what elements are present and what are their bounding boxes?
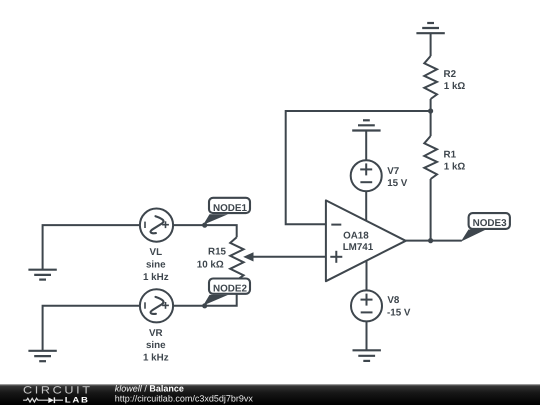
wire V7 to op-amp V+ xyxy=(365,191,367,221)
ground (below V8) xyxy=(353,350,381,361)
ground (above V7) xyxy=(352,120,380,130)
svg-text:V8: V8 xyxy=(387,295,400,306)
svg-text:1 kHz: 1 kHz xyxy=(143,272,169,283)
wire feedback: R1R2 node to op-amp - input xyxy=(286,111,431,224)
voltage source VL xyxy=(140,209,173,242)
svg-text:1 kΩ: 1 kΩ xyxy=(444,162,466,173)
wire VL right to R15 top xyxy=(173,225,237,237)
wire R15 wiper to op-amp + input xyxy=(250,256,326,258)
svg-text:NODE2: NODE2 xyxy=(213,284,248,295)
svg-text:R1: R1 xyxy=(444,150,457,161)
footer bar xyxy=(0,384,540,405)
node flag NODE1 xyxy=(203,198,250,225)
svg-text:10 kΩ: 10 kΩ xyxy=(197,259,224,270)
op-amp OA18 xyxy=(326,200,406,281)
junction dot NODE1 attach xyxy=(202,223,207,228)
CircuitLab logo xyxy=(23,385,93,405)
wire VR left to ground corner xyxy=(43,306,140,351)
svg-text:klowell / Balance: klowell / Balance xyxy=(115,384,184,394)
label R2 value xyxy=(444,69,466,92)
potentiometer R15 wiper arrow xyxy=(243,252,253,261)
label VR value xyxy=(143,328,169,364)
wire R1 to output node xyxy=(430,179,432,241)
wire op-amp output to NODE3 xyxy=(406,240,462,242)
wire V8 to ground xyxy=(366,321,368,350)
wire VL left to ground corner xyxy=(43,225,140,270)
wire VR right to R15 bottom xyxy=(173,280,237,306)
svg-text:NODE3: NODE3 xyxy=(473,218,508,229)
svg-text:LAB: LAB xyxy=(65,396,90,405)
node flag NODE2 xyxy=(203,279,250,306)
label VL value xyxy=(143,247,169,283)
wire op-amp V- to V8 xyxy=(366,261,368,291)
svg-text:VL: VL xyxy=(150,247,163,258)
svg-text:sine: sine xyxy=(146,340,166,351)
label V8 value xyxy=(387,295,411,318)
label R1 value xyxy=(444,150,466,173)
svg-text:1 kΩ: 1 kΩ xyxy=(444,81,466,92)
ground (below VL wire, left upper) xyxy=(28,270,56,280)
ground (top right, above R2) xyxy=(416,23,444,33)
op-amp - input mark xyxy=(331,224,341,226)
svg-text:R2: R2 xyxy=(444,69,457,80)
potentiometer R15 xyxy=(230,237,243,280)
voltage source V8 xyxy=(351,290,382,321)
label OA18 LM741 xyxy=(343,231,374,254)
voltage source VR xyxy=(140,289,173,322)
svg-text:-15 V: -15 V xyxy=(387,308,411,319)
junction dot output node xyxy=(428,238,433,243)
wire ground to R2 xyxy=(430,33,432,56)
svg-text:V7: V7 xyxy=(387,166,400,177)
svg-text:LM741: LM741 xyxy=(343,242,374,253)
junction dot feedback node xyxy=(428,108,433,113)
label R15 value xyxy=(197,247,227,271)
resistor R2 xyxy=(424,56,437,99)
footer title text xyxy=(115,384,254,404)
svg-text:VR: VR xyxy=(149,328,163,339)
op-amp + input mark xyxy=(330,251,342,263)
svg-text:http://circuitlab.com/c3xd5dj7: http://circuitlab.com/c3xd5dj7br9vx xyxy=(115,393,254,403)
wire R2 to R1 xyxy=(430,99,432,136)
ground (below VR wire, left lower) xyxy=(28,351,56,361)
svg-text:sine: sine xyxy=(146,259,166,270)
label V7 value xyxy=(387,166,408,189)
junction dot NODE2 attach xyxy=(202,303,207,308)
svg-text:1 kHz: 1 kHz xyxy=(143,353,169,364)
svg-text:NODE1: NODE1 xyxy=(213,203,248,214)
svg-text:OA18: OA18 xyxy=(343,231,369,242)
wire ground to V7 xyxy=(365,131,367,161)
voltage source V7 xyxy=(351,160,382,191)
node flag NODE3 xyxy=(461,213,510,242)
svg-text:15 V: 15 V xyxy=(387,178,408,189)
svg-text:R15: R15 xyxy=(208,247,227,258)
resistor R1 xyxy=(424,136,437,179)
